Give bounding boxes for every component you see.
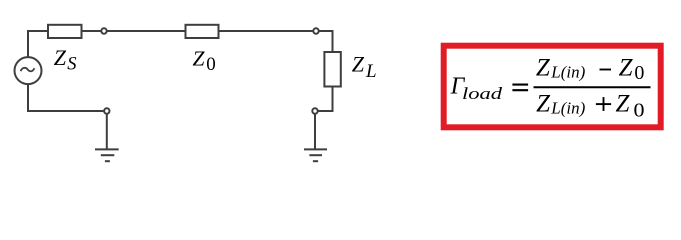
svg-text:load: load [462, 84, 503, 103]
svg-text:0: 0 [634, 62, 644, 84]
node C (terminal circle) [104, 108, 109, 113]
wire Z0 to node B [219, 30, 313, 32]
svg-text:Z: Z [536, 54, 551, 81]
label Z_L [352, 51, 377, 82]
formula gamma_load [450, 74, 503, 104]
formula denominator Z_L(in) + Z_0 [536, 90, 644, 121]
wire node C to ground [106, 114, 108, 149]
svg-text:0: 0 [634, 100, 645, 122]
wire node B to ZL top [319, 31, 332, 52]
AC source V1 [15, 57, 42, 84]
load ZL [324, 52, 340, 87]
formula minus sign [600, 69, 612, 71]
wire bottom rail [27, 110, 103, 112]
formula red box [444, 46, 661, 128]
svg-text:Z: Z [536, 90, 551, 117]
formula numerator Z_L(in) - Z_0 [536, 54, 645, 84]
svg-text:Z: Z [54, 45, 67, 70]
ground right [304, 149, 327, 161]
wire source top to rail [27, 31, 29, 57]
wire node D to ground [314, 114, 316, 149]
wire ZL bottom to node D [318, 87, 332, 112]
label Z_0 [193, 46, 216, 75]
svg-text:L(in): L(in) [550, 99, 585, 118]
svg-text:Z: Z [619, 54, 634, 81]
svg-text:Z: Z [352, 51, 365, 76]
node D (terminal circle) [312, 108, 317, 113]
svg-text:Z: Z [616, 90, 631, 117]
wire top rail left segment [27, 30, 48, 32]
svg-text:S: S [67, 54, 76, 74]
svg-text:0: 0 [206, 54, 216, 75]
resistor ZS [48, 25, 82, 38]
wire node A to Z0 [107, 30, 185, 32]
node A (terminal circle) [101, 28, 106, 33]
node B (terminal circle) [313, 28, 318, 33]
wire source bottom to rail [27, 84, 29, 111]
label Z_S [54, 45, 77, 75]
svg-text:L: L [365, 61, 377, 82]
formula equals sign [512, 85, 528, 91]
formula fraction bar [534, 86, 651, 88]
transmission line Z0 [186, 25, 219, 38]
ground left [95, 149, 119, 161]
wire ZS to node A [82, 30, 101, 32]
formula plus sign [596, 97, 611, 111]
svg-text:Z: Z [193, 46, 206, 70]
svg-text:L(in): L(in) [550, 63, 585, 82]
